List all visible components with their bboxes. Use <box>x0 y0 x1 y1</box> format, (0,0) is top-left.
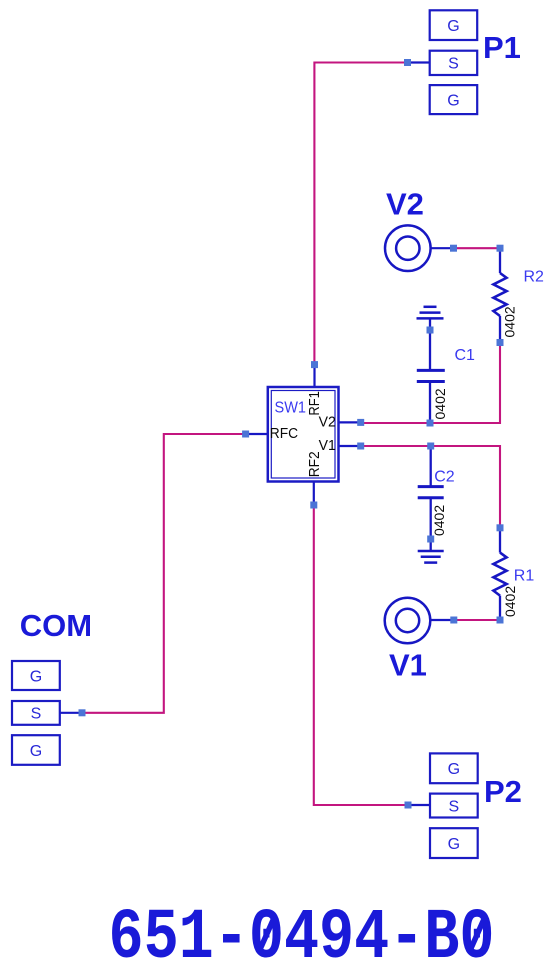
connector V1 <box>385 598 431 644</box>
junction node at R2 top <box>497 245 504 252</box>
resistor R1 <box>493 529 506 618</box>
junction node at SW1 RF1 <box>311 361 318 368</box>
junction node at COM.S <box>79 709 86 716</box>
svg-text:COM: COM <box>20 608 92 643</box>
junction node at SW1 V1 pin <box>357 443 364 450</box>
capacitor C2 <box>418 446 444 539</box>
ground (above C1) <box>417 307 444 334</box>
ground (below C2) <box>418 539 444 563</box>
svg-text:RF1: RF1 <box>306 391 323 416</box>
svg-text:C1: C1 <box>455 347 476 364</box>
junction node at R1 bottom <box>497 617 504 624</box>
svg-text:R2: R2 <box>524 269 545 286</box>
svg-text:0402: 0402 <box>432 388 448 419</box>
svg-text:G: G <box>448 761 460 778</box>
svg-text:0402: 0402 <box>502 586 518 617</box>
wire net COM: pink from SW1 RFC node left and down to COM.S node <box>82 434 246 713</box>
svg-text:SW1: SW1 <box>275 400 307 417</box>
connector V2 <box>385 225 431 271</box>
junction node at C2 top <box>427 443 434 450</box>
resistor R2 <box>493 250 506 341</box>
svg-text:R1: R1 <box>514 568 535 585</box>
svg-text:V1: V1 <box>389 648 427 683</box>
junction node at R2 bottom <box>497 339 504 346</box>
junction node at V1 connector <box>450 617 457 624</box>
junction node at P2.S <box>405 802 412 809</box>
svg-text:G: G <box>448 836 460 853</box>
svg-text:0402: 0402 <box>501 306 517 337</box>
svg-text:P2: P2 <box>484 774 522 809</box>
svg-text:P1: P1 <box>483 30 521 65</box>
port P2 pad G (top) <box>430 753 478 783</box>
svg-text:RF2: RF2 <box>306 451 323 477</box>
port COM pad S <box>12 701 60 725</box>
switch SW1 <box>268 387 339 482</box>
port COM pad G (bottom) <box>12 735 60 765</box>
wire net P2: pink from SW1 RF2 node down and right to P2.S node <box>314 505 408 805</box>
capacitor C1 <box>417 330 445 423</box>
wire net V1 bias: pink from SW1 V1 pin node right and down to R1 top node <box>361 446 500 528</box>
wire blue stub SW1 RF2 <box>313 482 315 506</box>
wire blue stub P2.S <box>408 804 430 806</box>
wire blue stub SW1 RF1 <box>313 365 315 387</box>
wire blue stub P1.S <box>408 61 430 63</box>
junction node at R1 top <box>497 524 504 531</box>
svg-text:G: G <box>447 18 459 35</box>
wire blue stub COM.S <box>60 712 82 714</box>
title 651-0494-B0 <box>109 899 495 969</box>
wire blue stub SW1 V1 <box>339 445 361 447</box>
svg-text:G: G <box>30 743 42 760</box>
svg-text:G: G <box>447 92 459 109</box>
svg-text:V2: V2 <box>319 413 336 430</box>
wire blue stub SW1 V2 <box>339 421 361 423</box>
svg-text:651-0494-B0: 651-0494-B0 <box>109 899 495 969</box>
junction node at SW1 RF2 <box>310 502 317 509</box>
svg-text:S: S <box>31 706 42 723</box>
wire net P1: pink route from P1.S node to SW1 RF1 node <box>314 63 407 365</box>
port COM pad G (top) <box>12 661 60 690</box>
junction node at C2 bottom (ground) <box>427 536 434 543</box>
port P2 pad S <box>430 794 478 818</box>
svg-text:V2: V2 <box>386 187 424 222</box>
junction node at SW1 RFC pin <box>242 431 249 438</box>
svg-text:S: S <box>448 56 459 73</box>
wire blue stub SW1 RFC <box>246 433 268 435</box>
junction node at SW1 V2 pin <box>357 419 364 426</box>
junction node at P1.S <box>404 59 411 66</box>
junction node at C1 top (ground) <box>427 327 434 334</box>
wire net V2 bias: pink from R2 bottom node down and left to SW1 V2 pin node <box>361 343 500 424</box>
svg-text:C2: C2 <box>434 468 455 485</box>
svg-text:RFC: RFC <box>270 425 298 442</box>
svg-text:S: S <box>448 798 459 815</box>
wire blue stub V1 connector <box>431 619 454 621</box>
wire net V2 supply: pink from V2 connector node to R2 top node <box>454 247 501 249</box>
svg-text:G: G <box>30 668 42 685</box>
svg-text:0402: 0402 <box>431 505 447 536</box>
junction node at V2 connector <box>450 245 457 252</box>
wire blue stub V2 connector <box>431 247 454 249</box>
wire net V1 supply: pink from R1 bottom node to V1 connector node <box>454 619 500 621</box>
port P1 pad G (top) <box>430 10 478 40</box>
port P2 pad G (bottom) <box>430 828 478 858</box>
port P1 pad S <box>430 51 478 75</box>
junction node at C1 bottom <box>427 420 434 427</box>
port P1 pad G (bottom) <box>430 85 478 114</box>
